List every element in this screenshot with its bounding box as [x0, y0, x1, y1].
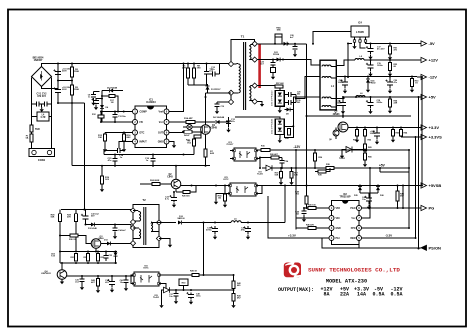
T1 secondary winding lower [249, 87, 251, 101]
ground CY mid [41, 104, 43, 107]
optocoupler IC6 [134, 272, 159, 286]
bridge rectifier BD1-BD4 [32, 67, 52, 87]
svg-text:R30 331: R30 331 [69, 239, 77, 241]
wire right bus x403 [402, 186, 404, 209]
output arrow PG [417, 207, 421, 209]
resistor R6A loop [275, 36, 282, 44]
wire +12V row [336, 60, 355, 66]
resistor R26 [271, 156, 279, 159]
resistor R42 [232, 281, 235, 289]
wire IC1 pin1 left [102, 111, 132, 113]
wire TL431 connections [342, 150, 346, 154]
capacitor C29 [289, 92, 292, 97]
wire Q2 collector [175, 166, 177, 180]
wire IC2 pin4 3.3V sense [268, 196, 329, 238]
capacitor C11 [226, 121, 231, 124]
wire Q3 drain to T2 [101, 243, 133, 245]
IC4 pins [354, 37, 356, 40]
L1 winding 1 [322, 65, 331, 67]
diode D1 clamp [206, 86, 210, 90]
wire HV+ top bus [42, 64, 232, 67]
svg-text:D6 1N4148: D6 1N4148 [213, 116, 225, 119]
wire +5V net row [262, 167, 409, 169]
capacitor C16b [340, 102, 346, 105]
wire D31 out [284, 97, 320, 137]
resistor R21 [194, 135, 201, 138]
resistor R51 [389, 46, 392, 54]
resistor R28 [59, 214, 62, 222]
svg-text:D30 STPR1620: D30 STPR1620 [272, 90, 274, 106]
capacitor C38 [188, 294, 194, 297]
IC2 pin 5 [357, 236, 362, 241]
svg-text:R26 4K7: R26 4K7 [270, 153, 279, 156]
IC1 pin 4 [133, 139, 138, 144]
transistor Q8 [333, 130, 339, 136]
resistor R66 [364, 153, 367, 160]
svg-text:0.5A: 0.5A [372, 292, 384, 298]
resistor R32 [97, 254, 100, 262]
wire IC1 pin3 left [105, 132, 132, 134]
capacitor C12b [96, 99, 102, 100]
capacitor C6 [55, 90, 61, 93]
svg-text:R25 681: R25 681 [182, 196, 190, 198]
T2 primary winding upper [139, 212, 141, 222]
resistor R45 [97, 279, 100, 287]
T1 secondary winding upper [249, 46, 251, 60]
wire T2 sec bottom [159, 239, 170, 243]
IC1 PWM controller KA3843 body [135, 106, 167, 148]
diode D36 [376, 187, 380, 191]
svg-text:+5V: +5V [379, 164, 386, 168]
svg-text:COMP: COMP [140, 111, 148, 114]
transformer T2 body [133, 205, 159, 248]
capacitor C7 snubber [204, 72, 209, 75]
svg-text:R57 682: R57 682 [276, 83, 284, 85]
ground IC5 pin3 [215, 200, 217, 202]
svg-text:+5VSB: +5VSB [429, 183, 442, 188]
resistor R14 [186, 121, 195, 124]
capacitor C15 [112, 159, 117, 162]
IC1 pin 5 [164, 139, 169, 144]
svg-text:D12 4148: D12 4148 [88, 227, 98, 230]
wire right bus x422 [421, 77, 423, 186]
resistor R24 [152, 183, 160, 186]
inductor L6 [356, 96, 365, 97]
wire Q4 base row [67, 275, 134, 277]
wire mid vertical to lower block [84, 103, 86, 210]
svg-text:Vref: Vref [158, 111, 163, 114]
svg-text:MODEL ATX-230: MODEL ATX-230 [326, 279, 367, 285]
wire 12V feed crossbar [307, 115, 412, 117]
resistor R53 [411, 79, 414, 87]
logo Sunny Technologies [284, 262, 303, 277]
wire right bus x418.5 [418, 97, 420, 249]
wire D31 top feed [235, 117, 280, 119]
svg-text:FPO: FPO [351, 228, 356, 230]
wire -5V/-12V vertical bus [306, 44, 308, 116]
wire aux vertical x102 [101, 91, 103, 123]
svg-text:GND: GND [336, 228, 341, 230]
capacitor C41 [79, 279, 84, 282]
resistor R65 [364, 144, 367, 151]
svg-text:T2: T2 [142, 198, 146, 202]
svg-text:22A: 22A [340, 292, 349, 298]
resistor R39 [318, 170, 326, 173]
resistor R63 [392, 130, 395, 137]
output arrow -12V [417, 76, 421, 78]
capacitor C16 [150, 159, 155, 162]
capacitor C33 [103, 256, 108, 259]
svg-text:+12V: +12V [429, 58, 439, 63]
resistor R8 snubber [193, 68, 196, 78]
IC2 pin 7 [357, 216, 362, 221]
svg-text:R4 47: R4 47 [184, 134, 190, 137]
svg-text:REM: REM [350, 238, 355, 240]
output arrow -5V [417, 43, 421, 45]
resistor R37 [290, 172, 293, 179]
T2 secondary winding [151, 222, 153, 232]
wire IC1 pin5 ground [169, 142, 174, 144]
capacitor CY2 [45, 101, 48, 106]
svg-text:L7905: L7905 [356, 30, 364, 34]
transistor Q4 [57, 270, 67, 280]
common-mode choke L4 box [37, 112, 49, 121]
svg-text:R24 680K: R24 680K [150, 179, 160, 182]
wire D30 bottom gnd [279, 106, 281, 108]
svg-text:D31 STPS3045: D31 STPS3045 [272, 118, 274, 134]
resistor R61 [356, 130, 359, 137]
output arrow +12V [417, 59, 421, 61]
wire +5V row [336, 97, 417, 99]
wire AC right leg [51, 78, 53, 150]
L1 winding 2 [322, 77, 331, 79]
svg-text:-12V: -12V [429, 75, 438, 80]
wire IC2 pin8 PG out [362, 207, 417, 209]
IC2 pin 8 [357, 206, 362, 211]
capacitor C43 [366, 198, 372, 201]
wire vertical net x296 [295, 150, 297, 230]
wire IC2 pin1 [316, 207, 329, 209]
resistor R17 [109, 95, 115, 98]
wire +3.3V rail [348, 127, 417, 129]
IC2 pin 3 [329, 226, 334, 231]
wire secondary mid tap [257, 60, 320, 66]
wire IC2 pin6 [362, 227, 409, 229]
transistor Q3 standby switch [91, 239, 101, 249]
svg-text:BD1-BD41N4007: BD1-BD41N4007 [33, 57, 44, 63]
capacitor C14 [118, 148, 121, 153]
wire -12V row [336, 76, 417, 78]
wire snubber bottom [188, 84, 208, 85]
svg-text:INPUT: INPUT [140, 141, 148, 144]
IC1 pin 6 [164, 130, 169, 135]
capacitor C24 [279, 161, 284, 164]
wire R42 divider column [233, 275, 235, 281]
capacitor C34 [109, 281, 115, 284]
svg-text:C13 50u: C13 50u [118, 116, 126, 118]
wire zener row [60, 251, 117, 253]
resistor R13 [104, 134, 107, 141]
svg-text:T1: T1 [241, 35, 245, 39]
wire Q3 source [95, 248, 97, 251]
IC8 TL431 shunt reg [164, 287, 170, 293]
resistor R54 [389, 99, 392, 107]
wire secondary top -12V feed [257, 43, 306, 45]
wire standby top bus [61, 209, 133, 211]
resistor R16 [123, 134, 126, 141]
resistor R43 [232, 294, 235, 302]
wire TL431 cathode row [170, 289, 234, 291]
ground bus under TL431 [162, 290, 164, 304]
wire cap stack [58, 64, 72, 104]
capacitor C26 [292, 47, 297, 50]
wire standby bottom rail [60, 262, 117, 264]
svg-text:+3.3V: +3.3V [429, 125, 440, 130]
wire Q1 drain [205, 93, 207, 125]
wire Q2 base [160, 183, 171, 185]
wire IC4 input from -12V [347, 44, 349, 78]
capacitor C34b [114, 225, 116, 229]
IC9 TL431 reference [266, 165, 272, 171]
resistor R52 [389, 63, 392, 71]
output arrow +3.3VS [417, 136, 421, 138]
capacitor C32 [83, 216, 89, 219]
wire PS/ON under-chip loop [322, 238, 359, 248]
wire cap bottom bus [58, 81, 85, 104]
svg-text:GND: GND [158, 141, 164, 144]
ferrite bead FB1 [187, 124, 192, 129]
wire Q2 emitter to R25 [175, 189, 177, 192]
capacitor C35 [212, 229, 218, 232]
fuse F1 [30, 134, 33, 142]
svg-text:OUTPUT(MAX):: OUTPUT(MAX): [278, 287, 314, 293]
resistor R34 [224, 194, 227, 201]
svg-text:Vcc: Vcc [159, 121, 164, 124]
resistor R38 [326, 167, 334, 170]
svg-text:+3.3V: +3.3V [288, 234, 296, 238]
capacitor C30 [289, 100, 292, 105]
resistor R64 [400, 130, 403, 137]
svg-text:+3.3VS: +3.3VS [429, 135, 443, 140]
svg-text:D5 1N4148: D5 1N4148 [107, 87, 118, 90]
ground IC1 pin5 [173, 143, 175, 145]
resistor R36 [314, 153, 317, 161]
svg-text:R14 4R7: R14 4R7 [184, 117, 193, 120]
L1 winding 4 [322, 106, 331, 108]
wire IC1 pin4 left [119, 142, 132, 149]
optocoupler IC5 [230, 183, 256, 196]
svg-text:OUT: OUT [158, 132, 164, 135]
capacitor C5 [55, 72, 61, 75]
svg-text:FB: FB [140, 121, 143, 124]
IC1 pin 8 [164, 109, 169, 114]
transistor Q7 mag-amp [338, 122, 348, 132]
resistor R2 [71, 67, 74, 77]
output arrow +5VSB [417, 185, 421, 187]
resistor R5 snubber [187, 68, 190, 78]
T1 core shield highlight red bar [258, 44, 261, 89]
resistor R16b [261, 149, 270, 152]
resistor R58 [288, 129, 291, 136]
transistor Q2 [171, 179, 181, 189]
wire R42/R43 junction [233, 289, 235, 294]
diode D8 [287, 108, 291, 112]
output arrow +5V [417, 96, 421, 98]
svg-text:R49 1K: R49 1K [190, 270, 198, 273]
resistor R44 [396, 191, 399, 201]
wire L1 w4 to Q7 [336, 106, 343, 119]
svg-text:VS5: VS5 [336, 208, 341, 210]
output arrow +3.3V [417, 127, 421, 129]
svg-text:8A: 8A [323, 292, 329, 298]
resistor R33 [87, 254, 90, 262]
output arrow PS/ON input [417, 247, 421, 249]
wire right bus crossbar y172 [380, 168, 409, 172]
diode pack D31 [275, 119, 284, 135]
diode D35 [358, 187, 362, 191]
diode pack D30 [275, 91, 284, 107]
resistor R19 [101, 176, 104, 184]
connector CON1 [29, 149, 55, 157]
wire T2 sec to D10 [159, 222, 176, 224]
wire R7 to rail [205, 157, 207, 166]
choke L1 body [320, 60, 336, 110]
wire D12 row [86, 225, 134, 229]
diode D24 [366, 79, 370, 83]
svg-text:R41 100: R41 100 [308, 204, 316, 207]
wire Q4 collector [61, 263, 63, 270]
wire 5VSB riser [284, 186, 286, 223]
svg-text:PS/ON: PS/ON [429, 245, 442, 250]
diode D12 [91, 223, 95, 227]
wire D31 bottom gnd [279, 134, 281, 138]
resistor R29 [75, 214, 78, 222]
IC1 pin 2 [133, 120, 138, 125]
svg-text:R45 47K: R45 47K [306, 224, 314, 227]
wire vertical net x315 [314, 150, 316, 168]
resistor R4 [184, 130, 192, 133]
thermistor THR1 [30, 125, 33, 132]
svg-text:DTC: DTC [140, 132, 145, 135]
diode D13 [107, 242, 111, 246]
svg-text:14A: 14A [357, 292, 366, 298]
svg-text:Vcc: Vcc [351, 218, 356, 220]
resistor R45b inline [308, 227, 316, 230]
wire IC6 bottom right to TL431 [159, 284, 166, 291]
wire IC1 pin7 Vcc [169, 121, 186, 123]
capacitor C22 [342, 82, 348, 85]
IC1 pin 1 [133, 109, 138, 114]
wire feedback riser [203, 223, 205, 276]
wire T1 top link [231, 40, 255, 64]
resistor R12 [98, 115, 104, 118]
wire T1 primary bottom [206, 93, 232, 102]
resistor R57 [275, 85, 283, 88]
diode D5 [110, 89, 114, 93]
wire T1 sec bottom gnd [257, 101, 262, 103]
wire -5V rail [348, 42, 417, 48]
capacitor C23s [272, 60, 274, 63]
capacitor C23 [171, 197, 177, 200]
capacitor C12 aux [213, 71, 216, 76]
wire IC3 pins [230, 151, 260, 169]
T2 primary winding lower [139, 229, 141, 239]
transistor Q1 MOSFET [201, 125, 211, 135]
svg-text:PG: PG [429, 206, 435, 211]
wire IC2 pin5 remote [362, 237, 416, 239]
capacitor C36 [245, 229, 251, 232]
svg-text:C34 4n7: C34 4n7 [118, 229, 127, 232]
wire IC2 pin7 [362, 168, 370, 218]
inductor L5 [231, 221, 241, 223]
svg-text:IC4: IC4 [358, 22, 362, 25]
resistor R31 [75, 254, 78, 262]
capacitor C17 [368, 48, 374, 51]
capacitor C18 [368, 102, 374, 105]
wire IC1 low rail [104, 154, 194, 156]
svg-text:CON1: CON1 [38, 158, 46, 162]
resistor R62 [364, 130, 367, 137]
resistor R9 [193, 139, 196, 146]
wire Q3 gate row [60, 236, 92, 244]
IC2 pin 4 [329, 236, 334, 241]
svg-text:V33: V33 [336, 218, 341, 220]
T2 core [144, 207, 146, 245]
capacitor C37 [173, 294, 178, 297]
diode D4 [100, 105, 104, 109]
wire IC6 left pins [131, 275, 134, 284]
wire D30 out taps [284, 77, 320, 103]
svg-text:0.5A: 0.5A [390, 292, 402, 298]
svg-text:PGI: PGI [336, 238, 340, 240]
resistor R25 [183, 191, 190, 194]
wire Q1 source [205, 134, 207, 149]
svg-text:PGO: PGO [350, 208, 355, 210]
resistor R41b inline [308, 207, 316, 210]
IC2 pin 2 [329, 216, 334, 221]
IC2 supervisor TPS3510 body [332, 201, 360, 245]
svg-text:-3.3V: -3.3V [385, 234, 392, 238]
svg-text:THR: THR [35, 129, 40, 131]
wire IC1 pin6 gate drive [169, 127, 201, 133]
wire mid horizontal rail [72, 165, 210, 167]
resistor R49 [192, 274, 199, 277]
wire IC4 input link [313, 32, 351, 44]
resistor R30 [70, 234, 78, 237]
svg-text:-12V: -12V [294, 145, 302, 149]
svg-text:C30562: C30562 [297, 100, 300, 104]
L1 winding 3 [322, 97, 331, 98]
wire CY link [32, 103, 52, 105]
resistor R7 current sense [204, 149, 207, 157]
wire -12V net row [258, 149, 409, 151]
diode D14 [114, 253, 118, 257]
wire IC1 pin8 to top [169, 64, 183, 112]
capacitor C42 [123, 280, 128, 283]
capacitor CY1 [37, 101, 40, 106]
ground IC4 pin1 [354, 42, 356, 44]
svg-text:C29562: C29562 [297, 92, 300, 96]
IC1 pin 7 [164, 120, 169, 125]
capacitor C19 [368, 65, 374, 68]
capacitor C13 [112, 115, 117, 118]
wire IC5 pins [181, 186, 417, 200]
T1 primary winding [239, 64, 241, 93]
wire IC2 pin2 [296, 218, 329, 228]
diode D21 [277, 58, 281, 62]
wire PS/ON [359, 247, 417, 249]
wire IC1 pin2 left [102, 121, 132, 123]
